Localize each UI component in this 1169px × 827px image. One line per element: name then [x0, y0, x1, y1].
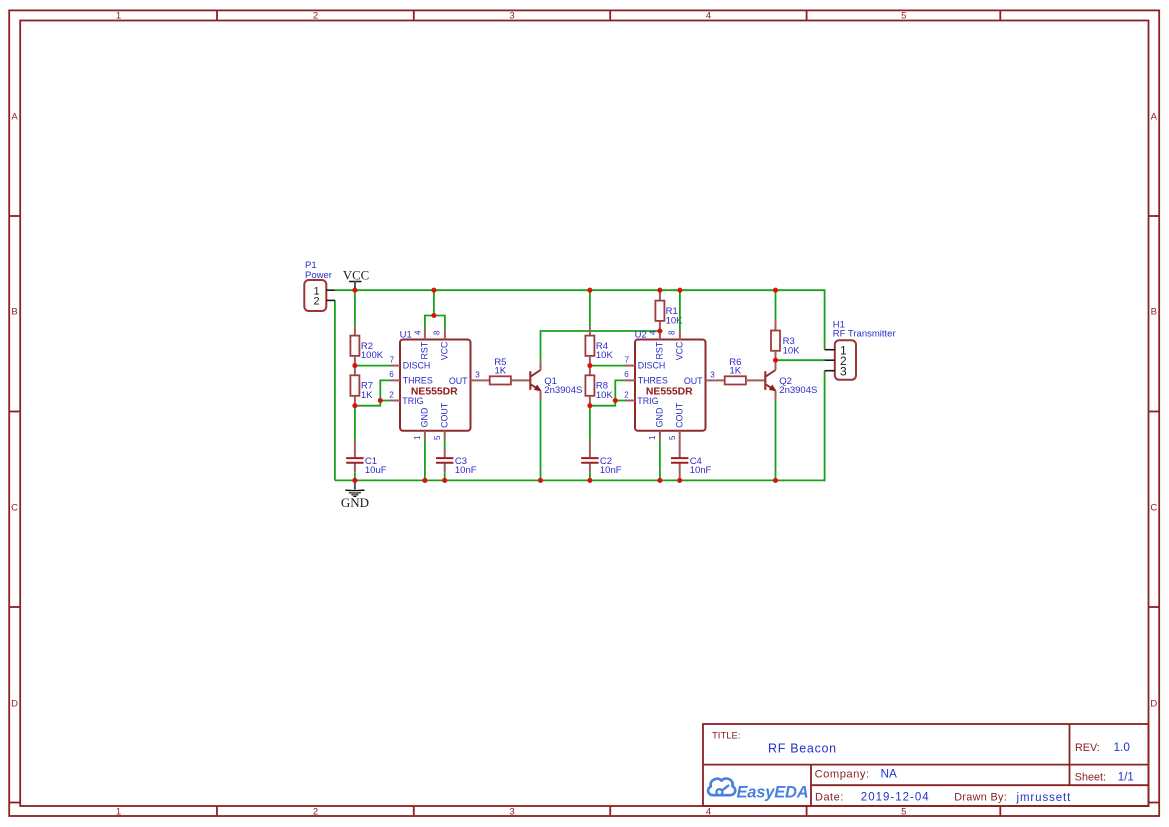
svg-text:RST: RST [655, 341, 665, 359]
capacitor C1 10uF [346, 441, 387, 476]
svg-text:COUT: COUT [440, 402, 450, 428]
junction R2-R7-DISCH node [352, 363, 357, 368]
svg-text:GND: GND [655, 408, 665, 428]
svg-text:1: 1 [413, 435, 422, 440]
title block [703, 724, 1149, 806]
svg-text:1: 1 [648, 435, 657, 440]
pin 1 GND [424, 431, 426, 440]
pin 6 THRES U2 [625, 379, 635, 381]
svg-text:10nF: 10nF [600, 465, 622, 476]
svg-text:REV:: REV: [1075, 742, 1100, 754]
svg-text:10K: 10K [783, 346, 801, 357]
capacitor C4 10nF [671, 439, 712, 480]
svg-text:1K: 1K [729, 366, 741, 377]
wire DISCH U1 [355, 365, 390, 367]
connector P1 [304, 260, 335, 311]
svg-text:1: 1 [116, 807, 121, 818]
svg-text:A: A [1151, 112, 1158, 123]
resistor R1 10K [655, 290, 683, 331]
svg-text:C: C [1150, 503, 1157, 514]
svg-text:4: 4 [649, 330, 658, 335]
svg-text:jmrussett: jmrussett [1016, 792, 1072, 804]
wire Q2 emitter to rail [775, 400, 777, 481]
svg-text:Date:: Date: [815, 792, 844, 804]
svg-text:5: 5 [901, 11, 906, 22]
svg-text:1K: 1K [494, 366, 506, 377]
wire TRIG U2 stub [615, 400, 625, 402]
wire P1 pin2 to ground rail [334, 300, 336, 480]
svg-text:D: D [1150, 699, 1157, 710]
resistor R6 1K [716, 357, 756, 385]
svg-text:GND: GND [420, 408, 430, 428]
svg-text:5: 5 [668, 435, 677, 440]
junction U1 bridge node [431, 313, 436, 318]
wire U1 RST/VCC bridge [425, 316, 445, 330]
pin 4 RST [424, 330, 426, 340]
ground symbol [341, 480, 369, 509]
svg-text:TRIG: TRIG [637, 396, 658, 406]
svg-text:10K: 10K [596, 390, 614, 401]
resistor R2 100K [350, 326, 383, 365]
wire H1 pin1 vertical [824, 289, 826, 349]
junction VCC rail / P1-VCC [352, 288, 357, 293]
junction GND rail / C4 [677, 478, 682, 483]
pin 7 DISCH U2 [625, 365, 635, 367]
wire VCC top rail [335, 289, 825, 291]
op-amp U1 NE555DR [389, 330, 480, 440]
svg-text:6: 6 [624, 370, 629, 379]
wire C2 to rail [589, 472, 591, 480]
pin 3 OUT U2 [706, 379, 716, 381]
svg-text:THRES: THRES [403, 376, 433, 386]
junction R7-C1-THRES node [352, 403, 357, 408]
svg-text:2: 2 [313, 11, 318, 22]
pin 8 VCC [444, 330, 446, 340]
svg-text:4: 4 [706, 11, 711, 22]
junction R8-C2-THRES node [587, 403, 592, 408]
wire VCC to R2 [354, 290, 356, 326]
svg-text:4: 4 [414, 330, 423, 335]
junction VCC rail / R1 [657, 288, 662, 293]
svg-text:D: D [11, 699, 18, 710]
junction GND rail / Q2 emitter [773, 478, 778, 483]
pin 6 THRES [390, 379, 400, 381]
junction R1-U2 RST node [657, 328, 662, 333]
svg-text:Drawn By:: Drawn By: [954, 792, 1007, 804]
junction GND rail / U2 pin1 [657, 478, 662, 483]
svg-text:OUT: OUT [449, 376, 468, 386]
junction VCC rail / U2 pin8 [677, 288, 682, 293]
wire R7 to C1 [354, 406, 356, 441]
resistor R3 10K [771, 320, 800, 360]
pin 2 TRIG U2 [625, 400, 635, 402]
svg-text:THRES: THRES [638, 376, 668, 386]
resistor R4 10K [585, 326, 613, 365]
svg-text:C: C [11, 503, 18, 514]
resistor R7 1K [350, 366, 373, 406]
connector H1 RF Transmitter [825, 320, 896, 380]
op-amp U2 NE555DR [624, 330, 715, 440]
wire VCC to R3 [775, 290, 777, 320]
svg-text:2019-12-04: 2019-12-04 [861, 792, 930, 804]
wire VCC to R4 [589, 290, 591, 326]
svg-text:8: 8 [433, 330, 442, 335]
svg-text:5: 5 [901, 807, 906, 818]
svg-text:RF Beacon: RF Beacon [768, 742, 837, 756]
svg-text:1.0: 1.0 [1114, 740, 1131, 754]
svg-text:8: 8 [668, 330, 677, 335]
svg-text:7: 7 [390, 356, 395, 365]
pin 5 COUT [444, 431, 446, 440]
wire Q1 collector to U2 RST [541, 331, 660, 361]
wire H1 pin3 vertical [824, 371, 826, 482]
svg-text:DISCH: DISCH [403, 361, 431, 371]
svg-text:100K: 100K [361, 350, 384, 361]
wire Q2 collector to H1 pin2 [776, 359, 825, 361]
svg-text:3: 3 [840, 365, 847, 379]
junction VCC rail / R3 [773, 288, 778, 293]
svg-text:1K: 1K [361, 390, 373, 401]
pin 5 COUT U2 [679, 431, 681, 440]
svg-text:3: 3 [710, 370, 715, 379]
svg-text:1/1: 1/1 [1118, 771, 1134, 783]
svg-text:A: A [11, 112, 18, 123]
svg-text:VCC: VCC [343, 268, 369, 282]
svg-text:B: B [11, 307, 17, 318]
pin 2 TRIG [390, 400, 400, 402]
svg-text:RF Transmitter: RF Transmitter [833, 328, 896, 339]
pin 8 VCC U2 [679, 331, 681, 340]
transistor Q2 2n3904S [756, 360, 817, 400]
svg-text:TITLE:: TITLE: [712, 730, 741, 741]
wire Q1 emitter to rail [540, 400, 542, 481]
svg-text:B: B [1151, 307, 1157, 318]
junction GND rail / C3 [442, 478, 447, 483]
svg-text:2n3904S: 2n3904S [544, 385, 582, 396]
wire C1 to rail [354, 472, 356, 480]
transistor Q1 2n3904S [521, 361, 582, 400]
svg-text:NA: NA [881, 766, 898, 780]
junction VCC rail / U1 bridge [431, 288, 436, 293]
resistor R5 1K [481, 357, 521, 385]
resistor R8 10K [585, 366, 613, 406]
junction GND rail / Q1 emitter [538, 478, 543, 483]
svg-text:2: 2 [313, 807, 318, 818]
wire U1 GND to rail [424, 439, 426, 480]
svg-text:EasyEDA: EasyEDA [737, 784, 809, 802]
wire DISCH U2 [590, 365, 625, 367]
svg-text:RST: RST [420, 341, 430, 359]
wire TRIG stub [380, 400, 390, 402]
wire U2 GND to rail [659, 439, 661, 480]
junction TRIG U2 node [613, 398, 618, 403]
svg-text:2: 2 [389, 390, 394, 399]
pin 3 OUT [471, 379, 481, 381]
svg-text:10nF: 10nF [455, 465, 477, 476]
svg-text:10K: 10K [596, 350, 614, 361]
wire U2 VCC pin vertical [679, 290, 681, 330]
junction R3-Q2 collector node [773, 358, 778, 363]
junction R4-R8-DISCH node [587, 363, 592, 368]
svg-text:6: 6 [389, 370, 394, 379]
wire bridge to VCC rail [433, 290, 435, 315]
net label VCC [343, 268, 369, 290]
junction GND rail / C1-GND [352, 478, 357, 483]
pin 4 RST U2 [659, 331, 661, 340]
junction TRIG U1 node [378, 398, 383, 403]
junction GND rail / C2 [587, 478, 592, 483]
svg-text:7: 7 [625, 356, 630, 365]
wire R8 to C2 [589, 406, 591, 441]
svg-text:2n3904S: 2n3904S [779, 385, 817, 396]
svg-text:GND: GND [341, 495, 369, 510]
svg-text:3: 3 [509, 807, 514, 818]
pin 1 GND U2 [659, 431, 661, 440]
wire R8 to THRES/TRIG U2 [590, 380, 625, 405]
svg-text:3: 3 [509, 11, 514, 22]
svg-text:3: 3 [475, 370, 480, 379]
junction VCC rail / R4 [587, 288, 592, 293]
svg-text:TRIG: TRIG [402, 396, 423, 406]
svg-text:1: 1 [116, 11, 121, 22]
svg-text:2: 2 [313, 296, 319, 308]
svg-text:10nF: 10nF [690, 465, 712, 476]
svg-text:10uF: 10uF [365, 465, 387, 476]
wire U1 COUT to C3 [444, 439, 446, 448]
wire GND bottom rail [335, 479, 825, 481]
capacitor C2 10nF [581, 441, 622, 476]
svg-text:5: 5 [433, 435, 442, 440]
EasyEDA logo [708, 779, 808, 802]
svg-text:4: 4 [706, 807, 711, 818]
wire C3 to rail [444, 472, 446, 480]
junction GND rail / U1 pin1 [422, 478, 427, 483]
svg-text:OUT: OUT [684, 376, 703, 386]
svg-text:Sheet:: Sheet: [1075, 771, 1106, 783]
svg-text:DISCH: DISCH [638, 361, 666, 371]
svg-text:COUT: COUT [675, 402, 685, 428]
svg-text:VCC: VCC [440, 341, 450, 360]
svg-text:VCC: VCC [675, 341, 685, 360]
wire R7 to THRES/TRIG [355, 380, 390, 405]
svg-text:2: 2 [624, 390, 629, 399]
capacitor C3 10nF [436, 448, 477, 476]
svg-text:Company:: Company: [815, 769, 870, 781]
pin 7 DISCH [390, 365, 400, 367]
